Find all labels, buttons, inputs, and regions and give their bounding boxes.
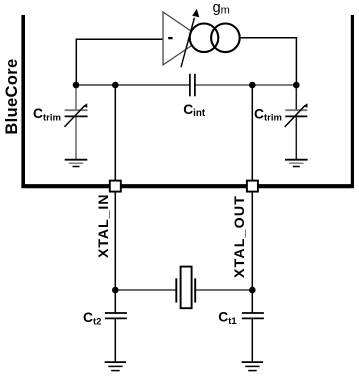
wire bottom node to Ct1 [251,290,253,312]
wire XTAL_OUT pad to bottom node [251,192,253,290]
wire node to XTAL_IN pad [114,85,116,181]
svg-text:Ct1: Ct1 [218,310,237,327]
svg-text:Ctrim: Ctrim [33,106,61,123]
node D (gm output / right Ctrim) [293,82,300,89]
svg-text:BlueCore: BlueCore [3,58,21,134]
gm current source circle 2 [211,24,240,53]
wire top bus right segment [195,84,296,86]
gm variability arrow [181,18,194,67]
node A (amp input / left Ctrim) [73,82,80,89]
node B (XTAL_IN column, top) [112,82,119,89]
BlueCore chip boundary bottom border [21,184,354,188]
capacitor C_trim left plates [65,109,88,111]
gm current source circle fills [190,24,219,53]
wire left node to Ctrim [75,85,77,110]
C_trim right trimmer arrow [285,105,305,127]
wire Ct2 to ground [114,319,116,362]
ground (left Ctrim) [65,159,88,161]
crystal X1 body [181,267,192,309]
svg-text:Ct2: Ct2 [83,310,101,327]
XTAL_IN pad [110,181,121,192]
wire top bus left segment [76,84,189,86]
wire bottom node to Ct2 [114,290,116,312]
wire right node to Ctrim [295,85,297,110]
XTAL_OUT pad [247,181,258,192]
BlueCore chip boundary right border [351,15,354,186]
gm current source circle 1 [190,24,219,53]
ground (C_t1) [242,361,264,363]
svg-text:Ctrim: Ctrim [254,106,282,123]
node E (bottom left, crystal/Ct2) [112,287,119,294]
crystal X1 right plate [194,278,196,302]
wire Ct1 to ground [251,319,253,362]
node C (XTAL_OUT column, top) [249,82,256,89]
wire from amplifier input to left node [76,39,163,85]
capacitor C_t2 plates [105,312,127,314]
svg-text:Cint: Cint [183,102,206,119]
ground (right Ctrim) [285,159,308,161]
svg-text:XTAL_OUT: XTAL_OUT [232,195,248,278]
capacitor C_int plates [189,74,191,97]
wire node to XTAL_OUT pad [251,85,253,181]
capacitor C_trim right plates [285,109,307,111]
svg-text:XTAL_IN: XTAL_IN [96,194,112,258]
BlueCore chip boundary left border [21,15,25,186]
wire left Ctrim to ground [75,117,77,159]
op-amp minus sign [168,37,172,39]
wire from gm output to right node [240,38,296,85]
wire bottom node to crystal left [115,289,176,291]
crystal X1 left plate [175,278,177,302]
ground (C_t2) [105,361,127,363]
svg-text:gm: gm [213,0,230,17]
wire crystal right to bottom node [196,289,253,291]
wire right Ctrim to ground [295,117,297,159]
op-amp U1 triangle [163,12,202,65]
capacitor C_t1 plates [242,312,264,314]
node F (bottom right, crystal/Ct1) [249,287,256,294]
C_trim left trimmer arrow [65,105,85,127]
wire XTAL_IN pad to bottom node [114,192,116,290]
